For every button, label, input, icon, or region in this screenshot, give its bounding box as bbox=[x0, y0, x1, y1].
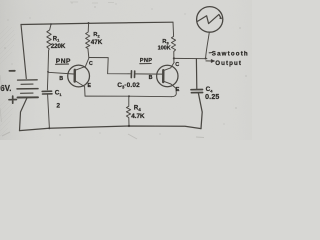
wire right edge lower (below C4) bbox=[198, 93, 202, 128]
svg-text:PNP: PNP bbox=[56, 58, 71, 65]
paper background bbox=[0, 0, 252, 140]
wire Q1 base bbox=[48, 72, 74, 74]
svg-text:B: B bbox=[59, 76, 63, 82]
battery B1 plate short bbox=[21, 92, 34, 94]
svg-text:B: B bbox=[149, 75, 153, 81]
capacitor C1 stem + plates bbox=[46, 72, 49, 90]
svg-text:4.7K: 4.7K bbox=[131, 113, 145, 120]
output arrow head bbox=[211, 59, 215, 63]
resistor R2 47K bbox=[86, 23, 90, 57]
svg-text:C: C bbox=[89, 61, 93, 67]
junction dots bbox=[47, 22, 207, 129]
wire bottom rail bbox=[20, 126, 202, 131]
svg-text:R2: R2 bbox=[93, 32, 100, 38]
svg-text:C3·0.02: C3·0.02 bbox=[117, 82, 140, 89]
svg-text:E: E bbox=[88, 83, 92, 89]
wire top rail bbox=[21, 22, 173, 24]
svg-text:Output: Output bbox=[215, 60, 242, 67]
wire left edge lower bbox=[20, 98, 27, 130]
svg-text:C: C bbox=[175, 62, 179, 68]
svg-text:R1: R1 bbox=[53, 36, 60, 42]
transistor Q1 emitter lead bbox=[75, 81, 85, 96]
output arrow shaft bbox=[206, 60, 211, 62]
transistor Q2 circle bbox=[157, 65, 178, 86]
PNP underline Q1 bbox=[56, 63, 69, 65]
wire right edge upper (above C4) bbox=[195, 59, 197, 89]
battery plus sign bbox=[9, 96, 16, 103]
wire R2 bottom to C3 (collector link) bbox=[89, 58, 131, 74]
transistor Q2 collector lead bbox=[164, 62, 175, 70]
wire output bbox=[174, 57, 207, 59]
left margin hatch texture bbox=[0, 26, 15, 136]
transistor Q2 base bar bbox=[162, 70, 165, 82]
scope stem bbox=[206, 32, 210, 58]
svg-text:0.25: 0.25 bbox=[205, 94, 219, 101]
resistor R3 100K bbox=[171, 22, 175, 62]
resistor R4 4.7K bbox=[126, 96, 130, 126]
transistor Q1 base bar bbox=[73, 70, 76, 82]
transistor Q1 circle bbox=[68, 65, 90, 87]
scope circle bbox=[197, 7, 223, 33]
svg-text:E: E bbox=[176, 87, 180, 93]
bottom edge smudges (decorative) bbox=[2, 132, 204, 139]
capacitor C4 plates bbox=[191, 89, 203, 91]
scan specks and smudges (decorative) bbox=[4, 3, 246, 136]
capacitor C3 plates bbox=[130, 71, 132, 78]
svg-text:220K: 220K bbox=[51, 43, 66, 50]
PNP underline Q2 bbox=[140, 63, 151, 65]
battery B1 6V plate long bbox=[18, 79, 38, 81]
label dash before Sawtooth bbox=[209, 52, 211, 54]
svg-text:R3: R3 bbox=[162, 39, 169, 45]
svg-text:2: 2 bbox=[56, 102, 60, 109]
battery B1 plate short bbox=[21, 83, 33, 85]
scope sawtooth wave bbox=[198, 14, 222, 23]
transistor Q2 emitter lead bbox=[163, 81, 176, 97]
svg-text:PNP: PNP bbox=[140, 58, 153, 64]
wire emitter rail bbox=[85, 95, 172, 98]
resistor R1 220K bbox=[47, 24, 51, 71]
svg-text:Sawtooth: Sawtooth bbox=[212, 50, 249, 57]
wire left edge upper bbox=[21, 25, 26, 79]
battery B1 plate long bbox=[17, 88, 38, 90]
svg-text:47K: 47K bbox=[91, 39, 103, 46]
svg-text:100K: 100K bbox=[158, 46, 171, 52]
battery B1 plate long thick bbox=[18, 96, 39, 98]
transistor Q1 collector lead bbox=[75, 58, 89, 70]
wire C3 to Q2 base bbox=[136, 73, 163, 75]
battery minus sign bbox=[9, 70, 14, 72]
